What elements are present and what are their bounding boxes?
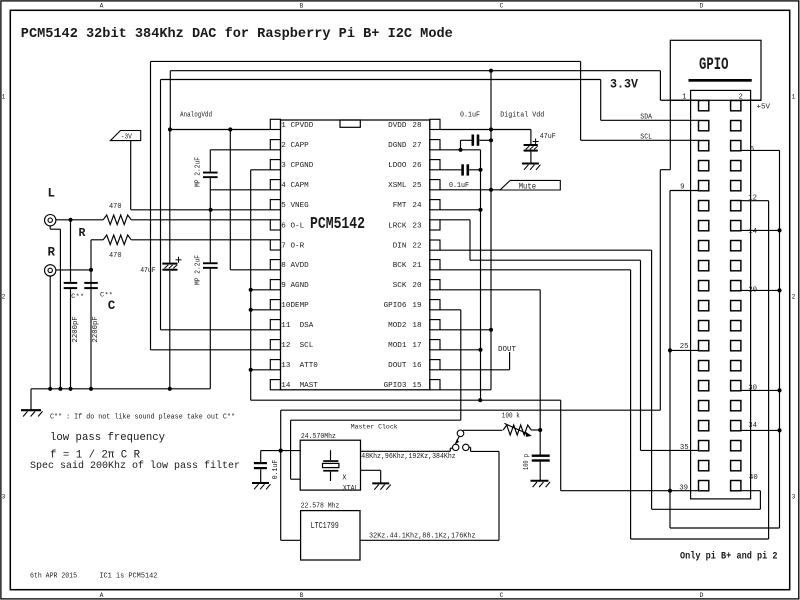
svg-text:2200pF: 2200pF [72, 316, 80, 342]
wire U1 pin10 DEMP horizontal [251, 309, 271, 311]
U1 pin 21 BCK stub [430, 260, 440, 270]
wire LTC1799 output y540 [360, 539, 499, 541]
wire U1 pin22 DIN line y250 to x651 [440, 249, 652, 251]
svg-text:0.1uF: 0.1uF [272, 460, 280, 480]
capacitor MP2.2uF lower plates [203, 262, 218, 264]
oscillator U2 LTC1799 box [301, 511, 360, 560]
svg-text:6: 6 [750, 146, 754, 154]
ground symbol under clock 0.1uF [252, 482, 269, 484]
svg-text:AGND: AGND [291, 282, 310, 290]
svg-text:470: 470 [109, 203, 122, 211]
svg-text:6th APR 2015: 6th APR 2015 [30, 573, 77, 581]
capacitor 47uF analog electrolytic [169, 130, 171, 263]
wire R-R resistor to U1 pin7 O-R [131, 239, 270, 241]
power flag -3V [110, 131, 140, 141]
wire 3.3V distribution jog x670 then x660 down to clock rail [669, 100, 671, 169]
node junction at (91,270) [89, 268, 93, 272]
svg-text:MOD2: MOD2 [388, 322, 407, 330]
node junction at (480.5,169.8) [478, 168, 482, 172]
node junction at (670,490.7) [668, 489, 672, 493]
svg-text:1: 1 [792, 94, 796, 101]
svg-text:15: 15 [412, 382, 422, 390]
wire rail 3.3V y70.7 from x170 to x660 [170, 70, 660, 72]
U1 pin 15 GPIO3 stub [430, 380, 440, 390]
svg-text:C** : If do not like sound ple: C** : If do not like sound please take o… [50, 413, 235, 421]
svg-text:24.570Mhz: 24.570Mhz [301, 433, 336, 441]
wire ground vertical x480 (DGND/LDO/FMT/MOD1) [480, 150, 482, 400]
svg-text:28: 28 [412, 122, 422, 130]
svg-text:Digital Vdd: Digital Vdd [500, 112, 544, 120]
svg-text:D: D [700, 3, 704, 10]
svg-text:B: B [300, 3, 304, 10]
wire ground line y400 to GPIO pin39 [251, 399, 561, 401]
svg-text:16: 16 [412, 362, 422, 370]
wire clock power to LTC1799 [281, 539, 301, 541]
U1 pin 3 CPGND stub [270, 160, 280, 170]
svg-text:GPIO3: GPIO3 [384, 382, 407, 390]
wire U1 pin20 SCK to master clock node [440, 289, 540, 291]
wire U1 pin25 XSML to Mute flag [440, 189, 500, 191]
svg-text:19: 19 [412, 302, 422, 310]
wire SDAnet vertical x600 down to GPIO pin3 [600, 80, 602, 121]
wire U1 pin16 DOUT [440, 369, 510, 371]
svg-text:10: 10 [281, 302, 291, 310]
node junction at (70.5,220) [68, 218, 72, 222]
wire junction up to R resistor [90, 240, 92, 270]
capacitor 0.1uF LDO plates [461, 164, 464, 175]
svg-text:DOUT: DOUT [388, 362, 407, 370]
svg-text:25: 25 [680, 343, 689, 351]
switch SW1 common contact circle [457, 430, 464, 437]
wire XTAL case ground [361, 469, 381, 471]
wire 3.3V vertical x491 [490, 71, 492, 390]
crystal symbol inside X1 [330, 450, 332, 460]
wire x560 down [560, 400, 562, 491]
svg-text:17: 17 [412, 342, 421, 350]
U1 pin 24 FMT stub [430, 200, 440, 210]
U1 pin 9 AGND stub [270, 280, 280, 290]
svg-text:MP 2.2uF: MP 2.2uF [195, 157, 203, 187]
U1 pin 1 CPVDD stub [270, 119, 280, 129]
ground symbol XTAL [372, 482, 389, 484]
svg-text:1: 1 [2, 94, 6, 101]
svg-text:XSML: XSML [388, 182, 407, 190]
wire U1 pin15 GPIO3 [440, 389, 491, 391]
svg-text:14: 14 [281, 382, 291, 390]
U1 pin 4 CAPM stub [270, 180, 280, 190]
svg-text:100 k: 100 k [502, 413, 520, 421]
wire GPIO pin39 ground line [561, 490, 699, 492]
wire AnalogVdd vertical x170 [169, 71, 171, 130]
connector GPIO header outline box [670, 40, 761, 100]
svg-text:40: 40 [749, 474, 758, 482]
wire GPIO pin6 ground stub [741, 149, 780, 151]
wire U1 pin13 ATT0 horizontal [251, 369, 271, 371]
wire U1 pin9 AGND horizontal [251, 289, 271, 291]
wire 3.3V clock drop x281 [280, 410, 282, 540]
svg-text:18: 18 [412, 322, 422, 330]
svg-text:8: 8 [281, 262, 286, 270]
svg-text:2: 2 [792, 294, 796, 301]
svg-text:14: 14 [748, 228, 757, 236]
wire C-L top lead [70, 220, 72, 282]
svg-text:27: 27 [412, 142, 421, 150]
svg-text:+5V: +5V [757, 104, 771, 112]
svg-text:L: L [48, 187, 56, 201]
wire GPIO pin12 BCK path [741, 200, 769, 202]
U1 pin 7 O-R stub [270, 240, 280, 250]
ground symbol under 100p [531, 480, 549, 482]
wire L jack to junction [56, 219, 103, 221]
U1 pin 22 DIN stub [430, 240, 440, 250]
svg-text:ATT0: ATT0 [300, 362, 319, 370]
wire U1 pin18 MOD2 [440, 329, 491, 331]
svg-text:D: D [700, 592, 704, 599]
node junction at (779.5,430.4) [777, 428, 781, 432]
wire U1 pin5 VNEG horizontal [131, 209, 271, 211]
capacitor 100p plates [532, 455, 550, 457]
wire SCLnet vertical x580 down to GPIO pin5 [580, 61, 582, 140]
wire GPIO pin34 ground stub [741, 429, 780, 431]
svg-text:DSA: DSA [300, 322, 314, 330]
wire SCK vertical x540 [539, 290, 541, 455]
svg-text:LTC1799: LTC1799 [311, 521, 339, 531]
node junction at (250.7,370) [249, 368, 253, 372]
U1 pin 16 DOUT stub [430, 360, 440, 370]
node junction at (779.5,230.4) [777, 228, 781, 232]
svg-text:0.1uF: 0.1uF [449, 182, 469, 190]
capacitor MP2.2uF upper plates [203, 172, 218, 174]
node junction at (491,140.3) [489, 138, 493, 142]
capacitor 0.1uF clock decoupling [260, 451, 262, 462]
svg-text:100 p: 100 p [523, 454, 531, 470]
wire SCL line y140 to GPIO pin5 [581, 139, 699, 141]
GPIO label underline [689, 79, 752, 82]
resistor R-L 470 zigzag [103, 215, 131, 225]
ground symbol left rail [30, 389, 32, 410]
svg-text:R: R [48, 246, 56, 260]
svg-text:2200pF: 2200pF [92, 316, 100, 342]
node AnalogVdd junction at (170,129.5) [168, 127, 172, 131]
svg-text:Only pi B+ and pi 2: Only pi B+ and pi 2 [680, 551, 778, 563]
svg-text:MP 2.2uF: MP 2.2uF [195, 255, 203, 285]
svg-text:23: 23 [412, 222, 422, 230]
node junction at (491,129.5) [489, 127, 493, 131]
svg-text:12: 12 [281, 342, 291, 350]
U1 pin 28 DVDD stub [430, 119, 440, 129]
wire GPIO pin40 DIN path [741, 490, 761, 492]
svg-text:C**: C** [71, 293, 84, 301]
svg-text:C: C [108, 299, 116, 313]
svg-text:LDOO: LDOO [388, 162, 407, 170]
wire AnalogVdd rail y129.5 to U1 pin1 CPVDD [170, 129, 270, 131]
svg-text:A: A [100, 592, 104, 599]
svg-text:48Khz,96Khz,192Kz,384Khz: 48Khz,96Khz,192Kz,384Khz [361, 453, 455, 461]
svg-text:GPIO: GPIO [699, 55, 729, 75]
svg-text:AnalogVdd: AnalogVdd [180, 111, 212, 119]
svg-text:low pass frequency: low pass frequency [50, 432, 165, 444]
wire rail SDAnet y79.5 from x160 to x600 [161, 79, 601, 81]
wire cap to VNEG junction and lower cap [209, 178, 211, 262]
svg-text:C: C [500, 3, 504, 10]
wire switch throw B to LTC output riser [469, 446, 471, 448]
wire U1 pin11 DSA horizontal [161, 329, 271, 331]
U1 pin 19 GPIO6 stub [430, 300, 440, 310]
wire GPIO pin9 ground to x670 bus [670, 190, 699, 192]
wire GPIO6 vertical x460 down [460, 310, 462, 420]
svg-text:XTAL: XTAL [343, 485, 359, 493]
U1 pin-1 notch [340, 120, 360, 127]
capacitor 47uF digital electrolytic [530, 130, 532, 145]
svg-text:O-L: O-L [291, 222, 305, 230]
svg-text:26: 26 [412, 162, 422, 170]
svg-text:CAPM: CAPM [291, 182, 310, 190]
svg-text:9: 9 [281, 282, 286, 290]
U1 pin 5 VNEG stub [270, 200, 280, 210]
svg-text:AVDD: AVDD [291, 262, 310, 270]
wire U1 pin26 LDOO [440, 169, 461, 171]
svg-text:47uF: 47uF [140, 267, 156, 275]
wire ground bus bottom y528 [670, 527, 780, 529]
wire enable drop x290 to XTAL box [290, 420, 292, 479]
svg-text:GPIO6: GPIO6 [384, 302, 407, 310]
svg-text:13: 13 [281, 362, 291, 370]
node junction at (230,129.5) [228, 127, 232, 131]
wire SCLnet vertical x150 down to U1 pin12 [150, 61, 152, 349]
svg-text:B: B [300, 592, 304, 599]
connector J-L left RCA jack [45, 215, 56, 226]
svg-text:DIN: DIN [393, 243, 407, 251]
wire GPIO6 line y420 to clock enable [291, 419, 461, 421]
svg-text:BCK: BCK [393, 262, 407, 270]
U1 pin 10 DEMP stub [270, 300, 280, 310]
wire ground bus x250 CPGND [250, 170, 252, 400]
wire L jack ground stem [49, 226, 51, 229]
node junction at (779.5,290.4) [777, 288, 781, 292]
wire left ground rail y388.8 [31, 388, 210, 390]
svg-text:IC1 is PCM5142: IC1 is PCM5142 [99, 573, 157, 581]
svg-text:2: 2 [281, 142, 286, 150]
svg-text:12: 12 [748, 194, 757, 202]
wire SDAnet vertical x160 down to U1 pin11 [160, 80, 162, 330]
svg-text:20: 20 [412, 282, 422, 290]
wire R jack ground stem [49, 276, 51, 389]
op-amp U1 PCM5142 body [281, 120, 430, 390]
svg-text:MAST: MAST [300, 382, 319, 390]
wire U1 pin3 CPGND horizontal [251, 169, 271, 171]
node junction at (280.7,450.6) [279, 449, 283, 453]
U1 pin 8 AVDD stub [270, 260, 280, 270]
svg-text:3: 3 [281, 162, 286, 170]
svg-text:47uF: 47uF [540, 133, 556, 141]
wire +5V GPIO pin2 stub [741, 99, 761, 101]
svg-text:22.578 Mhz: 22.578 Mhz [301, 502, 340, 510]
svg-text:7: 7 [281, 242, 286, 250]
wire LRCK line y260 to x640 [470, 259, 641, 261]
svg-text:3: 3 [792, 494, 796, 501]
node junction at (480.2,400.2) [478, 398, 482, 402]
wire U1 pin28 DVDD to 47uF digital cap [440, 129, 531, 131]
wire AnalogVdd branch x230 to U1 pin8 AVDD [229, 130, 231, 270]
svg-text:SDA: SDA [640, 113, 652, 121]
svg-text:1: 1 [281, 122, 286, 130]
U1 pin 20 SCK stub [430, 280, 440, 290]
svg-text:11: 11 [281, 322, 291, 330]
svg-text:5: 5 [281, 202, 286, 210]
U1 pin 13 ATT0 stub [270, 360, 280, 370]
wire XTAL output to switch [361, 450, 451, 452]
node junction at (491,329.8) [489, 328, 493, 332]
wire 100k to SCK node [531, 429, 540, 431]
wire U1 pin23 LRCK [440, 219, 470, 221]
node junction at (480.5,209.8) [478, 208, 482, 212]
connector GPIO body [691, 90, 751, 499]
svg-text:25: 25 [412, 182, 422, 190]
svg-text:DOUT: DOUT [498, 346, 516, 354]
svg-text:21: 21 [412, 262, 422, 270]
wire U1 pin19 GPIO6 [440, 309, 461, 311]
svg-text:30: 30 [748, 385, 757, 393]
U1 pin 12 SCL stub [270, 340, 280, 350]
U1 pin 2 CAPP stub [270, 140, 280, 150]
U1 pin 26 LDOO stub [430, 160, 440, 170]
connector J-R right RCA jack [45, 265, 56, 276]
resistor R-R 470 zigzag [103, 235, 131, 245]
node junction at (540.2,430) [538, 428, 542, 432]
wire lower cap to ground rail [209, 269, 211, 389]
wire GPIO pin35 LRCK [641, 449, 699, 451]
svg-text:A: A [100, 3, 104, 10]
wire -3V stem to VNEG line [130, 141, 132, 210]
node junction at (491,70.7) [489, 69, 493, 73]
svg-text:22: 22 [412, 243, 422, 251]
svg-text:24: 24 [412, 202, 422, 210]
wire U1 pin27 DGND [440, 149, 481, 151]
capacitor C-L 2200pF plates [64, 282, 77, 284]
svg-text:C: C [500, 592, 504, 599]
node junction at (460.5,149.8) [458, 148, 462, 152]
U1 pin 6 O-L stub [270, 220, 280, 230]
svg-text:0.1uF: 0.1uF [460, 111, 480, 119]
svg-text:SCL: SCL [640, 133, 652, 141]
wire rail SCLnet y61 from x150 to x580 [151, 60, 581, 62]
svg-text:R: R [79, 227, 86, 240]
U1 pin 17 MOD1 stub [430, 340, 440, 350]
node junction at (480.5,349.8) [478, 348, 482, 352]
wire GPIO pin14 ground stub [741, 229, 780, 231]
resistor 100k arrow [504, 423, 528, 434]
svg-text:MOD1: MOD1 [388, 342, 407, 350]
svg-text:DEMP: DEMP [291, 302, 310, 310]
svg-text:PCM5142: PCM5142 [310, 215, 365, 234]
svg-text:-3V: -3V [121, 134, 133, 142]
wire 100p to ground [539, 462, 541, 481]
svg-text:2: 2 [2, 294, 6, 301]
wire GPIO pin30 ground stub [741, 389, 780, 391]
resistor 100k zigzag [503, 425, 531, 435]
wire GPIO pin20 ground stub [741, 289, 780, 291]
U1 pin 11 DSA stub [270, 320, 280, 330]
capacitor C-R 2200pF plates [84, 282, 98, 284]
wire U1 pin17 MOD1 [440, 349, 481, 351]
wire clock power to XTAL box [261, 450, 301, 452]
wire ground bus right x779 [779, 150, 781, 528]
svg-text:FMT: FMT [393, 202, 407, 210]
U1 pin 18 MOD2 stub [430, 320, 440, 330]
U1 pin 23 LRCK stub [430, 220, 440, 230]
node junction at (491,189.8) [489, 188, 493, 192]
wire GPIO pin25 ground stub [670, 349, 699, 351]
svg-text:CPGND: CPGND [291, 162, 314, 170]
svg-text:SCK: SCK [393, 282, 407, 290]
U1 pin 27 DGND stub [430, 140, 440, 150]
label + polarity [176, 257, 182, 263]
svg-text:X: X [342, 475, 347, 483]
label + polarity digital [533, 139, 539, 145]
U1 pin 25 XSML stub [430, 180, 440, 190]
wire U1 pin12 SCL horizontal [151, 349, 271, 351]
wire switch common to 100k [463, 429, 502, 431]
svg-text:SCL: SCL [300, 342, 314, 350]
wire 3.3V feed to GPIO pin1 [169, 70, 171, 72]
svg-text:4: 4 [281, 182, 286, 190]
wire U1 pin4 CAPM horizontal [210, 189, 270, 191]
net flag Mute [500, 180, 560, 190]
node rail junctions [48, 387, 52, 391]
node junction at (250.7,310) [249, 308, 253, 312]
node junction at (250.7,290) [249, 288, 253, 292]
svg-text:39: 39 [679, 484, 688, 492]
svg-text:PCM5142 32bit 384Khz DAC for: PCM5142 32bit 384Khz DAC for Raspberry P… [21, 27, 453, 42]
wire R-L resistor to U1 pin6 O-L [131, 219, 270, 221]
wire R jack to junction [56, 269, 91, 271]
svg-text:DGND: DGND [388, 142, 407, 150]
wire LRCK jog down x470 [469, 220, 471, 260]
svg-text:DVDD: DVDD [388, 122, 407, 130]
U1 pin 14 MAST stub [270, 380, 280, 390]
wire 3.3V line y410 to clock section [281, 409, 661, 411]
svg-text:9: 9 [680, 184, 684, 192]
switch SW1 throw A circle [453, 444, 459, 450]
svg-text:3.3V: 3.3V [610, 77, 638, 92]
svg-text:Spec said 200Khz of low pass f: Spec said 200Khz of low pass filter [30, 460, 240, 472]
svg-text:Mute: Mute [519, 182, 537, 191]
svg-text:3: 3 [2, 494, 6, 501]
wire C-L bottom lead [70, 289, 72, 389]
wire U1 pin21 BCK line y270 to x630 [440, 269, 631, 271]
wire U1 pin2 CAPP to cap [210, 149, 270, 151]
wire junction down to rail (x91) [90, 270, 92, 389]
switch SW1 lever arrow [457, 436, 460, 441]
oscillator X1 24.570Mhz box [300, 440, 360, 490]
svg-text:32Kz.44.1Khz,88.1Kz,176Khz: 32Kz.44.1Khz,88.1Kz,176Khz [369, 533, 476, 541]
svg-text:20: 20 [748, 287, 757, 295]
net label stub DOUT [509, 352, 511, 370]
ground symbol under 47uF [522, 163, 539, 165]
svg-text:Master Clock: Master Clock [351, 424, 398, 432]
node junction at (779.5,390.4) [777, 388, 781, 392]
svg-text:O-R: O-R [291, 242, 305, 250]
svg-text:CPVDD: CPVDD [291, 122, 314, 130]
svg-text:VNEG: VNEG [291, 202, 310, 210]
capacitor 0.1uF DVDD plates [460, 140, 462, 150]
wire U1 pin24 FMT [440, 209, 481, 211]
svg-text:470: 470 [109, 252, 122, 260]
node junction at (210.6,210) [209, 208, 213, 212]
svg-text:CAPP: CAPP [291, 142, 310, 150]
GPIO pin squares right column [731, 101, 741, 491]
node junction at (670,350.4) [668, 348, 672, 352]
